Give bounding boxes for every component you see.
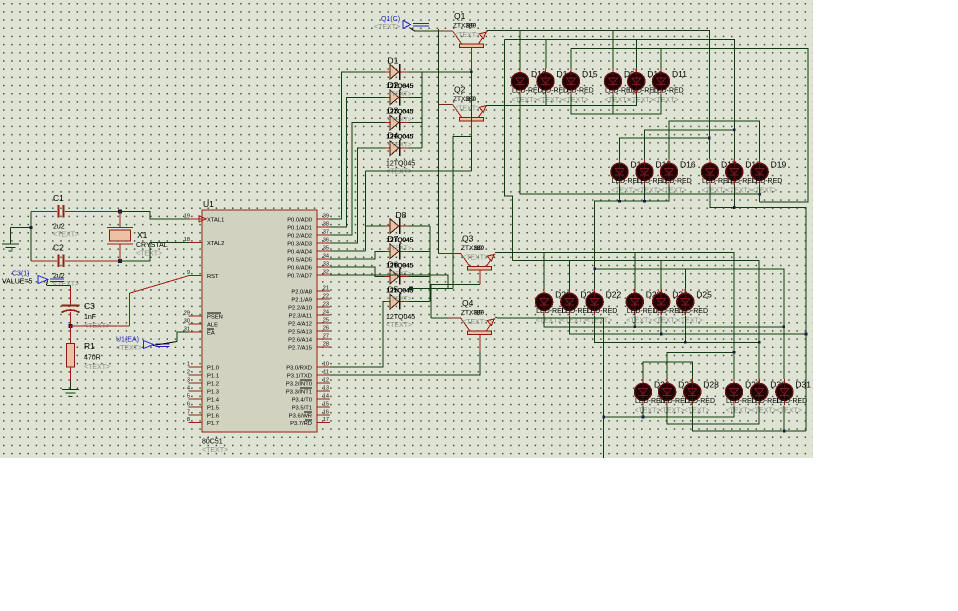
text D11 — [653, 97, 679, 104]
svg-text:<TEXT>: <TEXT> — [512, 97, 538, 104]
svg-text:<TEXT>: <TEXT> — [388, 91, 412, 98]
svg-text:B9ʼ: B9ʼ — [474, 308, 484, 316]
svg-text:P2.2/A10: P2.2/A10 — [288, 306, 312, 312]
svg-text:<TEXT>: <TEXT> — [677, 317, 703, 324]
value U1 80C51 — [202, 439, 223, 446]
capacitor C1 — [31, 205, 120, 218]
svg-text:XTAL2: XTAL2 — [207, 241, 224, 247]
svg-text:<TEXT>: <TEXT> — [388, 142, 412, 149]
text Q1 — [454, 32, 480, 39]
svg-text:Q2: Q2 — [454, 85, 466, 95]
text R1 — [84, 364, 110, 371]
label C2 — [53, 243, 64, 253]
label D26 — [654, 380, 670, 390]
transistor Q4 (ZTX389) — [461, 318, 496, 335]
wire P0.0 to D1 — [330, 72, 385, 219]
LED D9 (LED-RED) — [604, 68, 621, 94]
svg-text:<TEXT>: <TEXT> — [116, 345, 142, 352]
label D19 — [771, 160, 787, 170]
svg-text:LED-RED: LED-RED — [563, 87, 594, 94]
capacitor C2 — [31, 255, 120, 268]
svg-text:<TEXT>: <TEXT> — [661, 187, 687, 194]
label Q2 — [454, 85, 466, 95]
label D9 — [624, 69, 635, 79]
text D21 — [561, 317, 587, 324]
text D8 — [388, 245, 412, 252]
value D17 LED-RED — [702, 178, 733, 185]
text D15 — [563, 97, 589, 104]
svg-text:LED-RED: LED-RED — [661, 178, 692, 185]
svg-text:P3.6/WR: P3.6/WR — [289, 413, 312, 419]
text D4 — [386, 169, 412, 176]
wire row2 U link 3 — [669, 121, 760, 159]
text D19 — [751, 187, 777, 194]
LED D29 (LED-RED) — [725, 379, 742, 405]
value D21 LED-RED — [561, 308, 592, 315]
svg-text:<TEXT>: <TEXT> — [628, 97, 654, 104]
wire Q1 collector to row net — [366, 72, 472, 251]
label D22 — [606, 290, 622, 300]
svg-text:2: 2 — [187, 370, 190, 376]
value D15 LED-RED — [637, 178, 668, 185]
value C1 2u2 — [53, 224, 65, 231]
svg-text:X1: X1 — [137, 230, 148, 240]
svg-text:B9ʼ: B9ʼ — [466, 22, 476, 30]
value Q1 ZTX389 — [453, 22, 477, 30]
text D18 — [726, 187, 752, 194]
label Q3 — [462, 233, 474, 243]
svg-text:P3.5/T1: P3.5/T1 — [292, 405, 312, 411]
svg-text:R1: R1 — [84, 341, 95, 351]
svg-text:P0.1/AD1: P0.1/AD1 — [287, 226, 312, 232]
svg-text:D25: D25 — [696, 290, 712, 300]
wire XTAL2 — [120, 243, 189, 261]
text D3 — [388, 142, 412, 149]
svg-text:D4: D4 — [388, 131, 399, 141]
svg-text:P0.6/AD6: P0.6/AD6 — [287, 265, 312, 271]
text D26 — [635, 407, 661, 414]
value D31 LED-RED — [776, 398, 807, 405]
value D4 12TQ045 — [386, 161, 415, 168]
svg-text:5: 5 — [187, 393, 190, 399]
transistor Q2 (ZTX389) — [453, 105, 488, 122]
diode D1 (12TQ045) — [385, 64, 409, 80]
svg-text:C3: C3 — [84, 301, 95, 311]
svg-text:<TEXT>: <TEXT> — [53, 232, 79, 239]
svg-text:6: 6 — [187, 401, 190, 407]
label D10 — [647, 69, 663, 79]
svg-text:P0.4/AD4: P0.4/AD4 — [287, 250, 313, 256]
wire Q4 collector — [330, 334, 480, 375]
label D17 — [721, 160, 737, 170]
svg-text:P2.3/A11: P2.3/A11 — [289, 314, 312, 320]
svg-text:24: 24 — [323, 310, 329, 316]
label R1 — [84, 341, 95, 351]
value Q2 ZTX389 — [453, 95, 477, 103]
svg-text:<TEXT>: <TEXT> — [751, 187, 777, 194]
value D29 LED-RED — [726, 398, 757, 405]
text D28 — [684, 407, 710, 414]
label U1 — [203, 199, 214, 209]
value R1 470R — [84, 355, 101, 362]
LED D13 (LED-RED) — [511, 68, 528, 94]
svg-text:C1: C1 — [53, 193, 64, 203]
text D7 — [388, 270, 412, 277]
LED D10 (LED-RED) — [628, 68, 645, 94]
wire row4 top link 1 — [667, 351, 735, 379]
svg-text:D11: D11 — [672, 69, 687, 79]
wire top bus 2 — [505, 39, 735, 158]
op-amp U1 body (80C51 MCU) — [202, 210, 317, 432]
node junction C3-R1-RST — [69, 324, 73, 328]
LED D15 (LED-RED) — [636, 159, 653, 185]
svg-text:11: 11 — [323, 370, 329, 376]
wire P3.0 to D5 — [330, 302, 385, 367]
svg-text:<TEXT>: <TEXT> — [388, 245, 412, 252]
diode D5 (12TQ045) — [385, 294, 409, 310]
LED D17 (LED-RED) — [701, 159, 718, 185]
value Q4 ZTX389 — [461, 308, 485, 316]
svg-text:D2: D2 — [388, 80, 399, 90]
svg-text:17: 17 — [323, 417, 329, 423]
label X1 — [137, 230, 148, 240]
svg-text:C2: C2 — [53, 243, 64, 253]
svg-text:B9ʼ: B9ʼ — [474, 244, 484, 252]
wire row3 top bus 3 — [593, 268, 784, 379]
text D17 — [702, 187, 728, 194]
label D20 — [555, 290, 571, 300]
text D13 — [512, 97, 538, 104]
svg-text:<TEXT>: <TEXT> — [136, 251, 162, 258]
label C3(1) — [12, 271, 30, 278]
svg-text:<TEXT>: <TEXT> — [454, 106, 480, 113]
svg-text:470R: 470R — [84, 355, 101, 362]
svg-text:36: 36 — [323, 238, 329, 244]
LED D30 (LED-RED) — [751, 379, 768, 405]
power flag U1(EA) — [144, 341, 178, 349]
label D28 — [703, 380, 719, 390]
value D14 LED-RED — [612, 178, 643, 185]
value D25 LED-RED — [677, 308, 708, 315]
svg-text:Q3: Q3 — [462, 233, 474, 243]
LED D23 (LED-RED) — [626, 289, 643, 315]
text D15 — [636, 187, 662, 194]
value D11 LED-RED — [653, 87, 684, 94]
label Q1 — [454, 11, 466, 21]
wire row4 bottom bus 1 — [602, 405, 734, 418]
power flag Q1(C) — [403, 21, 429, 32]
text D14 — [537, 97, 563, 104]
wire Q2 collector — [453, 121, 472, 289]
wire row2 bottom bus 2 — [710, 185, 806, 431]
LED D26 (LED-RED) — [634, 379, 651, 405]
svg-text:14: 14 — [323, 393, 329, 399]
LED D28 (LED-RED) — [684, 379, 701, 405]
label C1 — [53, 193, 64, 203]
label D16 — [680, 160, 696, 170]
svg-text:LED-RED: LED-RED — [653, 87, 684, 94]
value D27 LED-RED — [659, 398, 690, 405]
svg-text:PSEN: PSEN — [207, 314, 223, 320]
svg-text:80C51: 80C51 — [202, 439, 223, 446]
value D13 LED-RED — [512, 87, 543, 94]
text Q1(C) — [374, 24, 400, 31]
diode D7 (12TQ045) — [385, 243, 409, 259]
svg-text:<TEXT>: <TEXT> — [462, 319, 488, 326]
text D24 — [653, 317, 679, 324]
svg-text:P3.4/T0: P3.4/T0 — [292, 397, 312, 403]
text D1 — [388, 91, 412, 98]
wire row2 U link 1 — [620, 137, 711, 159]
svg-text:<TEXT>: <TEXT> — [374, 24, 400, 31]
value D10 LED-RED — [628, 87, 659, 94]
svg-text:C3(1): C3(1) — [12, 271, 30, 278]
svg-text:33: 33 — [323, 261, 329, 267]
value D23 LED-RED — [627, 308, 658, 315]
svg-text:D7: D7 — [388, 234, 399, 244]
svg-text:8: 8 — [187, 417, 190, 423]
svg-text:P3.2/INT0: P3.2/INT0 — [286, 382, 312, 388]
svg-text:<TEXT>: <TEXT> — [386, 169, 412, 176]
label D21 — [580, 290, 596, 300]
svg-text:22: 22 — [323, 294, 329, 300]
svg-text:29: 29 — [184, 310, 190, 316]
svg-text:35: 35 — [323, 246, 329, 252]
svg-text:LED-RED: LED-RED — [752, 178, 783, 185]
label D27 — [678, 380, 694, 390]
svg-text:<TEXT>: <TEXT> — [388, 270, 412, 277]
value 12TQ045 / label D4 overlap — [386, 131, 414, 141]
svg-text:27: 27 — [323, 333, 329, 339]
label U1(EA) — [116, 337, 139, 344]
label D24 — [672, 290, 688, 300]
svg-text:D1: D1 — [388, 56, 399, 66]
svg-text:<TEXT>: <TEXT> — [626, 317, 652, 324]
value D16 LED-RED — [661, 178, 692, 185]
LED D14 (LED-RED) — [537, 68, 554, 94]
text Q4 — [462, 319, 488, 326]
LED D18 (LED-RED) — [726, 159, 743, 185]
value D5 12TQ045 — [386, 314, 415, 321]
text X1 — [136, 251, 162, 258]
svg-text:EA: EA — [207, 330, 215, 336]
svg-text:P3.3/INT1: P3.3/INT1 — [286, 389, 312, 395]
text Q2 — [454, 106, 480, 113]
LED D31 (LED-RED) — [776, 379, 793, 405]
ground (R1) — [62, 381, 79, 397]
text D16 — [661, 187, 687, 194]
svg-text:10: 10 — [323, 362, 329, 368]
svg-text:<TEXT>: <TEXT> — [388, 296, 412, 303]
wire P0.1 to D2 — [330, 97, 385, 227]
svg-text:<TEXT>: <TEXT> — [702, 187, 728, 194]
label D30 — [770, 380, 786, 390]
value D14 LED-RED — [538, 87, 569, 94]
svg-text:P0.0/AD0: P0.0/AD0 — [287, 218, 312, 224]
node junction C1-X1 — [118, 209, 122, 213]
text D5 — [386, 322, 412, 329]
value 12TQ045 / label D7 overlap — [386, 234, 414, 244]
svg-text:12TQ045: 12TQ045 — [386, 314, 415, 321]
text D6 — [388, 296, 412, 303]
LED D20 (LED-RED) — [536, 289, 553, 315]
label D31 — [795, 380, 811, 390]
text Q3 — [462, 254, 488, 261]
svg-text:<TEXT>: <TEXT> — [84, 364, 110, 371]
wire P0.4 to D8 — [330, 226, 385, 251]
wire Q3 emitter bus — [495, 253, 734, 379]
text U1 — [202, 447, 228, 454]
svg-text:P1.1: P1.1 — [207, 374, 219, 380]
wire row3 top bus 2 — [513, 261, 760, 379]
svg-text:LED-RED: LED-RED — [776, 398, 807, 405]
text D20 — [536, 317, 562, 324]
label Q1(C) — [381, 16, 400, 23]
text D31 — [776, 407, 802, 414]
svg-text:P2.0/A8: P2.0/A8 — [291, 290, 312, 296]
svg-text:<TEXT>: <TEXT> — [563, 97, 589, 104]
svg-text:28: 28 — [323, 341, 329, 347]
text C1 — [53, 232, 79, 239]
wire Q1 emitter top bus — [487, 30, 709, 158]
svg-text:P1.5: P1.5 — [207, 405, 219, 411]
svg-text:Q1: Q1 — [454, 11, 466, 21]
wire P0.3 to D4 — [330, 148, 385, 243]
svg-text:Q4: Q4 — [462, 298, 474, 308]
svg-text:ALE: ALE — [207, 322, 218, 328]
text U1(EA) — [116, 345, 142, 352]
wire Q1 collector — [422, 48, 473, 74]
svg-text:32: 32 — [323, 269, 329, 275]
svg-text:<TEXT>: <TEXT> — [684, 407, 710, 414]
label D15 — [656, 160, 672, 170]
svg-text:D19: D19 — [771, 160, 787, 170]
wire top bus 3 — [571, 48, 808, 202]
wire left column chain — [505, 39, 513, 260]
svg-text:P3.0/RXD: P3.0/RXD — [286, 366, 312, 372]
transistor Q3 (ZTX389) — [461, 253, 496, 269]
wire P0.7 — [330, 275, 448, 289]
svg-text:D16: D16 — [680, 160, 696, 170]
value D20 LED-RED — [536, 308, 567, 315]
value Q3 ZTX389 — [461, 244, 485, 252]
svg-text:P1.6: P1.6 — [207, 413, 219, 419]
wire C3 top — [47, 285, 71, 288]
svg-text:39: 39 — [323, 214, 329, 220]
wire base bus — [415, 29, 461, 253]
diode D8 (12TQ045) — [385, 218, 409, 234]
LED D25 (LED-RED) — [677, 289, 694, 315]
text D25 — [677, 317, 703, 324]
value D22 LED-RED — [587, 308, 618, 315]
svg-text:P0.7/AD7: P0.7/AD7 — [287, 273, 312, 279]
wire Q3 collector — [431, 270, 480, 318]
svg-text:D15: D15 — [582, 69, 598, 79]
diode D4 (12TQ045) — [385, 140, 409, 156]
svg-text:19: 19 — [184, 213, 190, 219]
svg-text:LED-RED: LED-RED — [677, 308, 708, 315]
svg-text:<TEXT>: <TEXT> — [776, 407, 802, 414]
svg-text:U1: U1 — [203, 199, 214, 209]
LED D22 (LED-RED) — [586, 289, 603, 315]
label D1 — [388, 56, 399, 66]
svg-text:P1.7: P1.7 — [207, 421, 219, 427]
value C3 1nF — [84, 314, 96, 321]
label D18 — [745, 160, 761, 170]
svg-text:P1.0: P1.0 — [207, 366, 219, 372]
svg-text:26: 26 — [323, 325, 329, 331]
ground (crystal caps) — [2, 228, 31, 252]
pins U1 right (P0.0-P0.7, P2.0-P2.7, P3.0-P3.7) — [286, 214, 330, 428]
svg-text:P3.7/RD: P3.7/RD — [290, 421, 312, 427]
text D30 — [751, 407, 777, 414]
wire Q4 emitter bus — [495, 317, 604, 458]
wire left vertical C1-C2 bus — [30, 211, 33, 260]
wire P0.6 to D6 — [330, 267, 385, 277]
label D15 — [582, 69, 598, 79]
capacitor C3 — [62, 288, 80, 326]
value C2 2u2 — [53, 273, 65, 280]
pins U1 left (XTAL1,XTAL2,RST,PSEN,ALE,EA,P1.0-P1.7) — [184, 213, 225, 427]
svg-text:P2.7/A15: P2.7/A15 — [288, 345, 312, 351]
LED D15 (LED-RED) — [562, 68, 579, 94]
svg-text:P1.4: P1.4 — [207, 397, 220, 403]
svg-text:LED-RED: LED-RED — [587, 308, 618, 315]
text D9 — [605, 97, 631, 104]
wire row2 bottom bus 1 — [595, 185, 669, 269]
svg-text:<TEXT>: <TEXT> — [53, 281, 79, 288]
wire row3 bottom bus 3 — [595, 315, 761, 343]
svg-text:<TEXT>: <TEXT> — [611, 187, 637, 194]
text D2 — [388, 116, 412, 123]
svg-text:D28: D28 — [703, 380, 719, 390]
label D13 — [531, 69, 547, 79]
value D26 LED-RED — [635, 398, 666, 405]
wire row4 top link 2 — [643, 362, 692, 379]
svg-text:<TEXT>: <TEXT> — [636, 187, 662, 194]
svg-text:37: 37 — [323, 230, 329, 236]
svg-text:<TEXT>: <TEXT> — [635, 407, 661, 414]
svg-text:D22: D22 — [606, 290, 622, 300]
text D10 — [628, 97, 654, 104]
value X1 CRYSTAL — [136, 242, 168, 249]
label Q4 — [462, 298, 474, 308]
text D29 — [726, 407, 752, 414]
svg-text:<TEXT>: <TEXT> — [605, 97, 631, 104]
crystal X1 — [107, 211, 133, 260]
diode D6 (12TQ045) — [385, 269, 409, 285]
value 12TQ045 / label D6 overlap — [386, 259, 414, 269]
svg-text:P0.2/AD2: P0.2/AD2 — [287, 234, 312, 240]
diode D2 (12TQ045) — [385, 89, 409, 105]
svg-text:3: 3 — [187, 378, 190, 384]
label D14 — [631, 160, 647, 170]
text D23 — [626, 317, 652, 324]
value D9 LED-RED — [605, 87, 636, 94]
svg-text:<TEXT>: <TEXT> — [653, 97, 679, 104]
node junction D6 cathode — [409, 287, 453, 291]
resistor R1 — [66, 326, 74, 381]
wire P0.5 to D7 — [330, 251, 385, 259]
wire row1 U link — [571, 94, 661, 114]
svg-text:P2.5/A13: P2.5/A13 — [288, 329, 312, 335]
svg-text:P2.1/A9: P2.1/A9 — [291, 298, 312, 304]
wire EA — [177, 332, 189, 342]
label D29 — [745, 380, 761, 390]
svg-text:P1.2: P1.2 — [207, 382, 219, 388]
svg-text:D8: D8 — [396, 210, 407, 220]
svg-text:<TEXT>: <TEXT> — [659, 407, 685, 414]
